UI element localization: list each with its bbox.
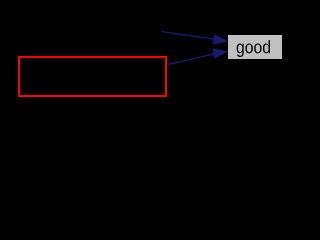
wire: edge from hidden upper node to good — [161, 32, 214, 40]
label: good — [237, 40, 270, 57]
arrowhead: lower edge into good — [213, 49, 228, 59]
node N2: good (grey filled) — [228, 35, 282, 59]
node N1: truncated node (red border, hidden black label) — [19, 57, 166, 96]
wire: edge from red node to good — [169, 54, 215, 65]
arrowhead: upper edge into good — [213, 34, 228, 44]
